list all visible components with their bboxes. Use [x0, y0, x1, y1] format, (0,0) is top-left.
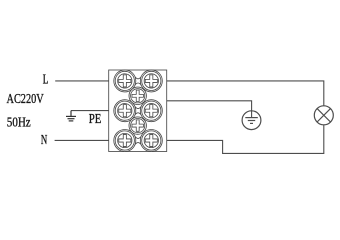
neck row3: [135, 107, 141, 115]
terminal blob outline single B: [129, 117, 146, 134]
neck row1: [135, 77, 141, 85]
svg-text:N: N: [41, 132, 48, 147]
neck row5: [135, 136, 141, 144]
svg-text:50Hz: 50Hz: [7, 115, 31, 130]
terminal blob outline single A: [129, 87, 146, 104]
wire lamp bottom (terminal to lamp): [167, 125, 324, 154]
svg-text:L: L: [43, 72, 49, 87]
screw terminal 8 (lamp N out): [142, 131, 161, 150]
terminal blob outlines row3 pair: [114, 100, 163, 122]
earth terminal symbol (circle): [242, 111, 261, 130]
screw terminal 3 (single A): [131, 89, 145, 103]
svg-text:AC220V: AC220V: [7, 92, 44, 107]
screw terminal 7 (N in): [115, 131, 134, 150]
lamp symbol: [314, 106, 333, 125]
terminal blob outlines row1 pair: [114, 70, 163, 92]
screw terminal 2 (lamp L out): [142, 71, 161, 90]
screw terminal 1 (L in): [115, 71, 134, 90]
svg-text:PE: PE: [89, 111, 102, 126]
screw terminal 4 (PE in): [115, 101, 134, 120]
wire N: [55, 139, 109, 141]
wire PE: [71, 110, 109, 112]
wire lamp top (terminal to lamp): [167, 81, 324, 106]
terminal blob outlines row5 pair: [114, 130, 163, 152]
wire earth branch: [167, 101, 252, 118]
ground PE symbol: [66, 111, 76, 121]
wire L: [55, 80, 108, 82]
screw terminal 6 (single B): [131, 119, 145, 133]
terminal block X1: [109, 70, 167, 152]
screw terminal 5 (earth out): [142, 101, 161, 120]
